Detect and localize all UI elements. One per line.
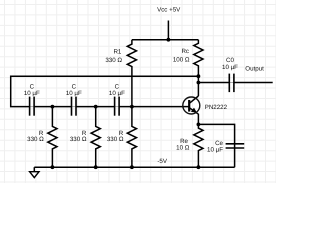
resistor Rc	[194, 40, 203, 96]
capacitor Ce	[226, 144, 245, 148]
wire: collector to output coupling	[198, 82, 229, 84]
svg-text:Output: Output	[245, 65, 264, 72]
node: rail junction ladder 2	[94, 165, 98, 169]
svg-text:10 µF: 10 µF	[222, 64, 238, 71]
svg-text:10 µF: 10 µF	[24, 90, 40, 97]
node 2	[94, 105, 98, 109]
wire: top supply rail	[132, 39, 199, 41]
node 1	[51, 105, 55, 109]
capacitor C (second, 10 uF)	[72, 97, 77, 116]
node: Vcc junction	[167, 38, 171, 42]
node: rail junction emitter	[197, 165, 201, 169]
node: rail junction ladder 1	[51, 165, 55, 169]
svg-text:PN2222: PN2222	[205, 104, 228, 111]
svg-text:100 Ω: 100 Ω	[173, 56, 190, 63]
transistor Q1 PN2222	[183, 96, 200, 124]
svg-text:R1: R1	[113, 49, 121, 56]
svg-text:330 Ω: 330 Ω	[107, 136, 124, 143]
capacitor C (third, 10 uF)	[115, 97, 120, 116]
wire: emitter to Ce	[198, 124, 234, 167]
svg-text:330 Ω: 330 Ω	[70, 136, 87, 143]
svg-text:Vcc +5V: Vcc +5V	[157, 6, 181, 13]
svg-text:10 µF: 10 µF	[66, 90, 82, 97]
wire: bottom negative rail	[34, 166, 234, 168]
resistor R (ladder 3, 330 ohm)	[127, 107, 136, 168]
capacitor C (first, 10 uF)	[30, 97, 34, 116]
resistor R (ladder 2, 330 ohm)	[91, 107, 100, 168]
ground	[30, 167, 39, 177]
node: collector-output junction	[197, 81, 201, 85]
wire: output lead	[234, 82, 273, 84]
wire: ladder segment to node 2	[76, 106, 115, 108]
node: emitter junction	[197, 123, 201, 127]
wire: collector feedback line to phase-shift ladder	[11, 76, 199, 106]
wire: base line from node 3 to transistor	[119, 106, 189, 108]
resistor R (ladder 1, 330 ohm)	[48, 107, 57, 168]
svg-text:10 Ω: 10 Ω	[176, 145, 190, 152]
svg-text:330 Ω: 330 Ω	[105, 57, 122, 64]
svg-text:10 µF: 10 µF	[207, 146, 223, 153]
resistor R1	[127, 40, 136, 107]
wire: Vcc stub	[167, 21, 169, 40]
node: rail junction ladder 3	[130, 165, 134, 169]
svg-text:330 Ω: 330 Ω	[27, 136, 44, 143]
svg-text:10 µF: 10 µF	[109, 90, 125, 97]
svg-text:Rc: Rc	[181, 48, 189, 55]
capacitor C0	[229, 74, 234, 93]
node 3	[130, 105, 134, 109]
svg-text:-5V: -5V	[157, 158, 168, 165]
node: collector-feedback junction	[197, 74, 201, 78]
resistor Re	[194, 124, 203, 167]
wire: ladder segment to node 1	[34, 106, 71, 108]
